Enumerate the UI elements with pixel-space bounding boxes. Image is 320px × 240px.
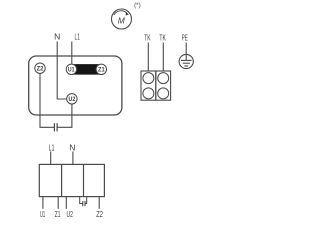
terminal Z1: [96, 64, 106, 74]
wire N to U2: [57, 42, 67, 100]
block circle top-right: [158, 73, 169, 84]
capacitor C1: [54, 123, 57, 131]
svg-text:L1: L1: [49, 143, 55, 153]
terminal U2: [67, 94, 77, 104]
svg-text:N: N: [54, 31, 60, 41]
stub U1: [42, 197, 44, 209]
svg-text:U1: U1: [68, 67, 75, 74]
wire capacitor to U2: [57, 104, 72, 127]
strip divider 1: [61, 164, 63, 196]
strip divider 2: [83, 164, 85, 196]
svg-text:U2: U2: [67, 209, 74, 219]
svg-text:U2: U2: [69, 96, 76, 103]
svg-text:M: M: [118, 16, 126, 26]
motor rotation direction arrow: [114, 11, 129, 16]
svg-text:TK: TK: [159, 32, 166, 42]
wire PE: [185, 43, 187, 55]
block circle bottom-left: [143, 88, 154, 99]
wire TK left: [147, 43, 149, 72]
block circle bottom-right: [158, 88, 169, 99]
terminal strip: [39, 164, 104, 196]
block circle top-left: [143, 73, 154, 84]
wire L1 to U1: [71, 42, 73, 65]
svg-text:(*): (*): [134, 2, 141, 9]
svg-text:L1: L1: [74, 31, 80, 41]
PE earth symbol: [179, 54, 193, 68]
terminal block right cell: [156, 71, 171, 100]
terminal U1: [66, 64, 76, 74]
terminal Z2: [35, 63, 45, 73]
svg-text:TK: TK: [144, 32, 151, 42]
svg-text:U1: U1: [40, 209, 45, 219]
stub U2: [65, 197, 67, 209]
svg-text:Z2: Z2: [37, 66, 44, 73]
capacitor C2 (below strip): [80, 197, 87, 207]
link bar U1-Z1: [66, 64, 107, 75]
svg-text:Z2: Z2: [96, 209, 103, 219]
svg-text:N: N: [69, 143, 75, 153]
wire L1 to strip: [50, 152, 52, 165]
stub Z2: [98, 197, 100, 209]
stub Z1: [57, 197, 59, 209]
svg-text:PE: PE: [182, 32, 188, 42]
wire N to strip: [72, 152, 74, 165]
controller box: [29, 56, 122, 115]
wire TK right: [162, 43, 164, 72]
svg-text:Z1: Z1: [55, 209, 61, 219]
svg-text:Z1: Z1: [98, 67, 105, 74]
wire Z2 down: [40, 73, 54, 127]
motor M symbol: [112, 9, 132, 29]
terminal block left cell: [141, 71, 156, 100]
